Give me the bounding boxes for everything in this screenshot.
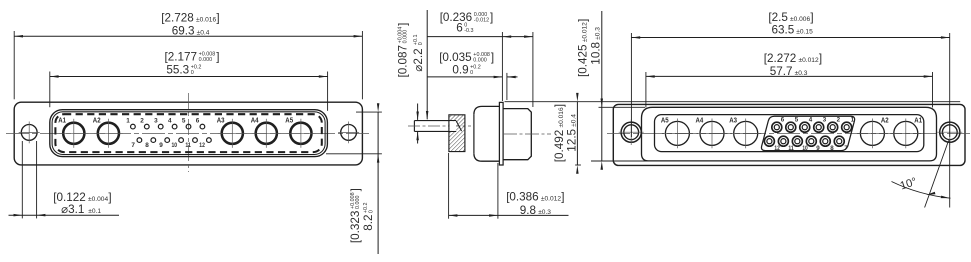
right view: signal contact 7 bbox=[834, 136, 844, 146]
dimension 69.3/2.728 overall width, left view bbox=[14, 35, 362, 37]
svg-text:±0.012: ±0.012 bbox=[582, 22, 589, 42]
svg-text:8: 8 bbox=[830, 145, 834, 152]
svg-text:±0.4: ±0.4 bbox=[570, 114, 577, 127]
svg-text:9: 9 bbox=[159, 142, 163, 149]
svg-text:±0.3: ±0.3 bbox=[594, 27, 601, 40]
svg-text:[0.323: [0.323 bbox=[349, 211, 362, 244]
svg-text:±0.012: ±0.012 bbox=[541, 196, 561, 203]
dimension 12.5/0.492 flange height, middle view bbox=[505, 101, 961, 103]
svg-text:A5: A5 bbox=[661, 117, 669, 124]
right view: signal contact 6 bbox=[772, 122, 782, 132]
svg-text:11: 11 bbox=[185, 142, 191, 149]
middle view: flange slab bbox=[499, 102, 503, 165]
left view: signal contact 10 bbox=[179, 138, 184, 143]
svg-text:A1: A1 bbox=[914, 117, 922, 124]
svg-text:4: 4 bbox=[168, 118, 172, 125]
left view: mounting hole right (dia 3.1) bbox=[341, 124, 357, 140]
svg-text:0.000: 0.000 bbox=[473, 57, 487, 63]
svg-text:[0.035: [0.035 bbox=[439, 51, 472, 64]
svg-text:±0.006: ±0.006 bbox=[790, 16, 810, 23]
svg-text:10.8: 10.8 bbox=[589, 42, 602, 65]
svg-text:57.7: 57.7 bbox=[770, 65, 793, 78]
svg-text:⌀2.2: ⌀2.2 bbox=[412, 48, 425, 71]
svg-text:8.2: 8.2 bbox=[362, 215, 375, 231]
svg-text:6: 6 bbox=[456, 22, 463, 35]
svg-text:11: 11 bbox=[788, 145, 794, 152]
svg-text:A2: A2 bbox=[881, 117, 889, 124]
dimension 9.8/0.386 overall depth, middle view bbox=[448, 153, 450, 219]
dimension 3.1/0.122 mounting hole diameter, left view bbox=[21, 141, 23, 218]
svg-text:4: 4 bbox=[809, 117, 813, 124]
left view: signal contact 9 bbox=[165, 138, 170, 143]
svg-text:8: 8 bbox=[145, 142, 149, 149]
middle view: pin centerline bbox=[408, 125, 471, 127]
right view: signal contact 9 bbox=[806, 136, 816, 146]
svg-text:2: 2 bbox=[837, 117, 841, 124]
svg-text:]: ] bbox=[216, 51, 219, 64]
left view: power contact A5 bbox=[290, 123, 311, 144]
left view: insert outer outline bbox=[50, 110, 328, 157]
right view: signal contact 5 bbox=[786, 122, 796, 132]
svg-text:A2: A2 bbox=[93, 118, 101, 125]
left view: insert inner outline bbox=[52, 112, 325, 155]
svg-text:0: 0 bbox=[368, 210, 374, 213]
svg-text:]: ] bbox=[396, 23, 409, 26]
left view: horizontal centerline bbox=[6, 132, 371, 134]
svg-text:12: 12 bbox=[199, 142, 205, 149]
svg-text:±0.15: ±0.15 bbox=[796, 29, 813, 36]
right view: signal contact area outline bbox=[761, 116, 854, 150]
right view: signal contact 4 bbox=[800, 122, 810, 132]
svg-text:6: 6 bbox=[781, 117, 785, 124]
middle view: body centerline bbox=[503, 133, 551, 135]
svg-text:A4: A4 bbox=[696, 117, 704, 124]
svg-text:10: 10 bbox=[802, 145, 808, 152]
middle view: solder pin (dia 2.2) bbox=[414, 120, 456, 122]
svg-text:[2.272: [2.272 bbox=[764, 52, 797, 65]
left view: mating-face opening (dashed) bbox=[55, 114, 321, 152]
svg-text:6: 6 bbox=[196, 118, 200, 125]
svg-text:±0.3: ±0.3 bbox=[795, 70, 808, 77]
svg-text:1: 1 bbox=[851, 117, 855, 124]
right view: signal contact 8 bbox=[820, 136, 830, 146]
svg-text:]: ] bbox=[491, 51, 494, 64]
svg-text:2: 2 bbox=[140, 118, 144, 125]
svg-text:0.9: 0.9 bbox=[452, 64, 468, 77]
dimension 63.5/2.5 mounting hole spacing, right view bbox=[631, 37, 949, 39]
svg-text:[0.425: [0.425 bbox=[577, 44, 590, 77]
left view: signal contact 2 bbox=[144, 124, 149, 129]
left view: power contact A3 bbox=[222, 123, 243, 144]
svg-text:0: 0 bbox=[191, 70, 194, 76]
svg-text:63.5: 63.5 bbox=[772, 24, 795, 37]
svg-text:]: ] bbox=[553, 104, 566, 107]
dimension 10.8/0.425 rear shell height, right view bbox=[599, 106, 646, 108]
svg-text:12.5: 12.5 bbox=[565, 128, 578, 151]
svg-text:12: 12 bbox=[774, 145, 780, 152]
svg-text:0: 0 bbox=[418, 42, 424, 45]
svg-text:]: ] bbox=[490, 11, 493, 24]
svg-text:10: 10 bbox=[172, 142, 178, 149]
right view: power contact A3 bbox=[734, 121, 758, 145]
svg-text:55.3: 55.3 bbox=[166, 63, 189, 76]
right view: insert outline bbox=[655, 115, 924, 152]
right view: horizontal centerline bbox=[607, 133, 971, 135]
left view: power contact A2 bbox=[98, 123, 119, 144]
right view: signal contact 3 bbox=[814, 122, 824, 132]
svg-text:0: 0 bbox=[470, 70, 473, 76]
svg-text:5: 5 bbox=[795, 117, 799, 124]
right view: signal contact 2 bbox=[828, 122, 838, 132]
left view: signal contact 11 bbox=[193, 138, 198, 143]
left view: signal contact 3 bbox=[158, 124, 163, 129]
svg-text:]: ] bbox=[561, 191, 564, 204]
svg-text:[2.728: [2.728 bbox=[161, 12, 194, 25]
right view: signal contact 1 bbox=[842, 122, 852, 132]
right view: flange plate outline bbox=[613, 104, 965, 165]
svg-text:]: ] bbox=[108, 191, 111, 204]
left view: signal contact 12 bbox=[207, 138, 212, 143]
svg-text:9: 9 bbox=[816, 145, 820, 152]
dimension 10 degree flange angle, right view bbox=[949, 140, 951, 208]
svg-text:A1: A1 bbox=[58, 118, 66, 125]
dimension 8.2/0.323 opening height, left view bbox=[356, 111, 382, 113]
svg-text:[2.5: [2.5 bbox=[768, 11, 788, 24]
dimension 0.9/0.035 insulator setback, middle view bbox=[427, 76, 502, 78]
left view: signal contact 6 bbox=[200, 124, 205, 129]
left view: vertical centerline bbox=[188, 93, 190, 172]
svg-text:]: ] bbox=[349, 188, 362, 191]
svg-text:7: 7 bbox=[844, 145, 848, 152]
right view: signal contact 10 bbox=[792, 136, 802, 146]
right view: mounting hole right bbox=[940, 122, 960, 142]
svg-text:-0.3: -0.3 bbox=[464, 28, 473, 34]
left view: signal contact 5 bbox=[186, 124, 191, 129]
svg-text:9.8: 9.8 bbox=[520, 204, 536, 217]
svg-text:1: 1 bbox=[126, 118, 130, 125]
svg-text:0.000: 0.000 bbox=[199, 57, 213, 63]
left view: mounting hole left (dia 3.1) bbox=[21, 124, 37, 140]
middle view: front shell outline bbox=[473, 114, 475, 153]
middle view: mating body (right, 6 deep) bbox=[503, 109, 531, 160]
svg-text:0.000: 0.000 bbox=[355, 196, 361, 210]
left view: signal contact 7 bbox=[137, 138, 142, 143]
svg-text:3: 3 bbox=[823, 117, 827, 124]
svg-text:-0.012: -0.012 bbox=[474, 17, 489, 23]
svg-text:3: 3 bbox=[154, 118, 158, 125]
svg-text:±0.3: ±0.3 bbox=[538, 209, 551, 216]
svg-text:±0.4: ±0.4 bbox=[197, 29, 210, 36]
svg-text:69.3: 69.3 bbox=[172, 24, 195, 37]
right view: power contact A1 bbox=[894, 121, 918, 145]
svg-text:A4: A4 bbox=[251, 118, 259, 125]
middle view: insulator block (hatched section) bbox=[449, 115, 465, 152]
svg-text:0.000: 0.000 bbox=[403, 30, 409, 44]
svg-text:±0.004: ±0.004 bbox=[88, 196, 108, 203]
right view: rear shell outline bbox=[642, 107, 937, 161]
svg-text:A3: A3 bbox=[217, 118, 225, 125]
svg-text:±0.012: ±0.012 bbox=[799, 57, 819, 64]
left view: power contact A1 bbox=[63, 123, 84, 144]
right view: signal contact 11 bbox=[778, 136, 788, 146]
svg-text:A5: A5 bbox=[285, 118, 293, 125]
svg-text:±0.1: ±0.1 bbox=[88, 208, 101, 215]
svg-text:]: ] bbox=[216, 12, 219, 25]
right view: power contact A4 bbox=[700, 121, 724, 145]
svg-text:[0.492: [0.492 bbox=[553, 130, 566, 163]
right view: power contact A5 bbox=[665, 121, 689, 145]
dimension 55.3/2.177 insert width, left view bbox=[50, 76, 328, 78]
left view: signal contact 1 bbox=[131, 124, 136, 129]
right view: mounting hole left bbox=[621, 122, 641, 142]
svg-text:±0.016: ±0.016 bbox=[558, 107, 565, 127]
svg-text:⌀3.1: ⌀3.1 bbox=[61, 203, 84, 216]
svg-text:[0.087: [0.087 bbox=[396, 45, 409, 78]
svg-text:]: ] bbox=[819, 52, 822, 65]
svg-text:±0.016: ±0.016 bbox=[196, 17, 216, 24]
left view: power contact A4 bbox=[256, 123, 277, 144]
svg-text:A3: A3 bbox=[729, 117, 737, 124]
svg-text:7: 7 bbox=[131, 142, 135, 149]
svg-text:5: 5 bbox=[182, 118, 186, 125]
svg-text:]: ] bbox=[577, 19, 590, 22]
left view: flange plate outline bbox=[14, 102, 362, 165]
svg-text:[0.386: [0.386 bbox=[506, 191, 539, 204]
dimension 6/0.236 mating depth, middle view bbox=[427, 36, 533, 38]
dimension 2.2/0.087 pin diameter, middle view bbox=[426, 10, 428, 119]
right view: signal contact 12 bbox=[764, 136, 774, 146]
svg-text:]: ] bbox=[810, 11, 813, 24]
left view: signal contact 4 bbox=[172, 124, 177, 129]
dimension 57.7/2.272 rear shell width, right view bbox=[646, 75, 933, 77]
right view: power contact A2 bbox=[860, 121, 884, 145]
left view: signal contact 8 bbox=[151, 138, 156, 143]
svg-text:[2.177: [2.177 bbox=[165, 51, 198, 64]
